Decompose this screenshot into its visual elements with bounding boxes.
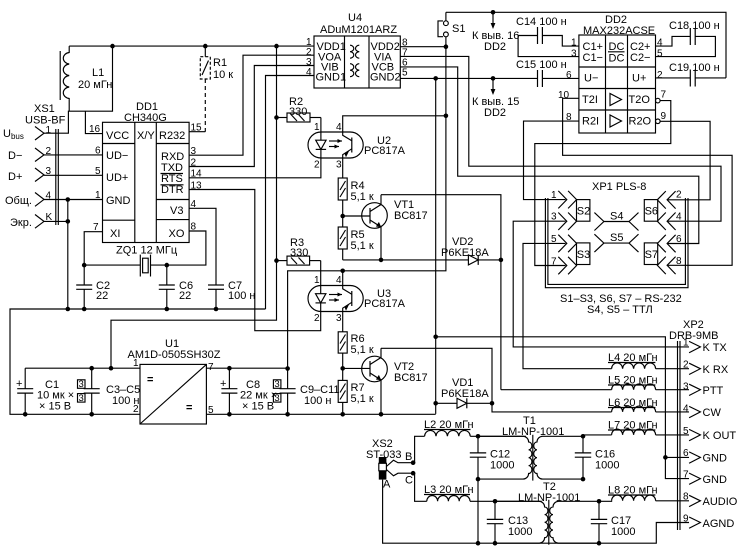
svg-text:U−: U− <box>584 73 598 85</box>
svg-text:T2I: T2I <box>582 94 598 106</box>
node C13 dots <box>493 499 498 546</box>
svg-text:5,1 к: 5,1 к <box>351 344 374 356</box>
XP1 pin2 chevrons <box>657 190 682 209</box>
svg-text:S1: S1 <box>452 23 465 35</box>
node GND2 branch dot <box>433 335 438 340</box>
wire VT2 collector to CW <box>381 348 492 403</box>
svg-text:1: 1 <box>133 358 139 369</box>
wire DD2 R2O to XP1 pin2 <box>660 121 710 200</box>
IC DD1 CH340G <box>89 101 202 243</box>
capacitor C19 100н <box>656 62 727 87</box>
wire DD2 T2O to XP1 pin7 <box>535 101 671 266</box>
svg-text:7: 7 <box>551 257 557 268</box>
resistor R4 5,1к <box>338 158 374 203</box>
svg-text:15: 15 <box>191 123 203 134</box>
svg-text:5,1 к: 5,1 к <box>351 240 374 252</box>
node junction dots left <box>66 197 71 311</box>
svg-text:3: 3 <box>336 313 342 324</box>
svg-text:K OUT: K OUT <box>703 430 737 442</box>
wire isolated +5V top rail <box>446 12 726 78</box>
svg-text:C14 100 н: C14 100 н <box>516 16 567 28</box>
svg-text:6: 6 <box>683 448 689 459</box>
svg-text:BC817: BC817 <box>394 372 428 384</box>
svg-text:Общ.: Общ. <box>5 195 32 207</box>
svg-text:U+: U+ <box>632 73 646 85</box>
node VD1 cathode dot <box>490 401 495 406</box>
svg-text:1: 1 <box>683 338 689 349</box>
svg-text:1000: 1000 <box>611 526 635 538</box>
node К выв. 15 DD2 arrow <box>472 78 519 119</box>
inductor L8 20мГн <box>608 485 689 501</box>
svg-text:R1: R1 <box>213 57 227 69</box>
svg-text:3: 3 <box>336 160 342 171</box>
jumper S2 box <box>577 200 591 222</box>
svg-text:V3: V3 <box>170 205 183 217</box>
wire XS2 A to audio ground rail <box>383 480 689 544</box>
svg-text:4: 4 <box>657 38 663 49</box>
wire DD1 XI to crystal <box>84 232 102 265</box>
svg-text:5,1 к: 5,1 к <box>351 393 374 405</box>
wire U4 GND1 riser <box>266 76 315 310</box>
XP2 pin5 K OUT <box>683 426 736 442</box>
jumper S3 box <box>577 243 591 265</box>
svg-text:6: 6 <box>566 70 572 81</box>
svg-text:=: = <box>186 402 192 414</box>
svg-text:XS1: XS1 <box>34 103 55 115</box>
svg-text:6: 6 <box>95 146 101 157</box>
resistor R6 5,1к <box>338 311 374 368</box>
transformer T2 LM-NP-1001 <box>495 481 599 545</box>
XP2 pin7 GND <box>683 470 727 487</box>
wire U2 pin4 to VDD2 riser <box>343 116 446 132</box>
wire DD1 RXD to U4 VOA <box>189 55 314 155</box>
wire DD2 T2I from XP1 pin8 <box>563 98 733 265</box>
wire U4 VDD2 pin8 to S1 <box>400 46 446 48</box>
svg-text:PC817A: PC817A <box>364 298 406 310</box>
node top rail dot <box>491 10 496 15</box>
node emitter dot <box>379 258 384 263</box>
svg-text:C19 100 н: C19 100 н <box>669 62 720 74</box>
capacitor C15 100н <box>516 59 579 87</box>
wire DD1 DTR to U3 pin2 <box>189 190 321 331</box>
svg-text:1000: 1000 <box>508 526 532 538</box>
inductor L6 20мГн <box>608 397 689 412</box>
svg-text:4: 4 <box>676 212 682 223</box>
node К выв. 16 DD2 arrow <box>472 12 519 53</box>
IC DD2 MAX232ACSE <box>558 14 667 133</box>
node C8 bottom dot <box>227 412 232 417</box>
node U3 collector dot <box>340 269 345 274</box>
svg-text:S2: S2 <box>577 206 590 218</box>
svg-text:1000: 1000 <box>595 460 619 472</box>
wire U4 VIA to XP1 pin4 <box>400 56 721 221</box>
wire VT1 collector to PTT riser <box>381 195 501 390</box>
svg-text:DD2: DD2 <box>484 107 506 119</box>
wire ground drop from Общ <box>67 200 69 310</box>
svg-text:K TX: K TX <box>703 342 728 354</box>
svg-text:S7: S7 <box>645 249 658 261</box>
capacitor C18 100н <box>656 20 720 57</box>
svg-text:10: 10 <box>558 90 570 101</box>
svg-text:330: 330 <box>290 247 308 259</box>
XP1 pin7 chevrons <box>551 257 577 275</box>
svg-text:BC817: BC817 <box>394 210 428 222</box>
svg-text:S4: S4 <box>610 211 623 223</box>
XP2 pin4 CW <box>683 404 721 420</box>
svg-text:GND: GND <box>703 474 728 486</box>
capacitor C3-C5 100н x3 <box>78 368 141 414</box>
svg-text:10 к: 10 к <box>213 69 233 81</box>
resistor R3 330 <box>277 237 321 265</box>
connector XP1 PLS-8 <box>545 181 688 288</box>
node XP2 GND dot <box>663 455 668 460</box>
svg-text:3: 3 <box>79 393 84 404</box>
jumper S4 <box>594 211 638 231</box>
XP2 pin3 PTT <box>683 382 724 398</box>
wire XS1 pinK Экр to ground <box>44 220 68 222</box>
svg-text:DC: DC <box>609 53 625 65</box>
XP1 pin6 chevrons <box>657 234 682 252</box>
svg-text:X/Y: X/Y <box>137 130 155 142</box>
connector XS1 USB-BF <box>3 103 66 229</box>
svg-text:× 15 В: × 15 В <box>39 401 71 413</box>
capacitor C14 100н <box>516 16 579 57</box>
wire VT1 emitter line to VD2 <box>343 259 469 261</box>
DC-DC U1 AM1D-0505SH30Z <box>128 338 221 424</box>
XP1 pin4 chevrons <box>657 212 682 231</box>
node VT1 base dot <box>340 214 345 219</box>
svg-text:1: 1 <box>551 190 557 201</box>
svg-text:R2O: R2O <box>629 116 652 128</box>
svg-text:P6KE18A: P6KE18A <box>441 247 489 259</box>
wire XS1 pin3 D+ to DD1 UD+ <box>44 174 103 176</box>
wire U4 GND2 line <box>400 77 536 79</box>
svg-text:ZQ1 12 МГц: ZQ1 12 МГц <box>116 245 178 257</box>
svg-text:S6: S6 <box>645 206 658 218</box>
transistor VT1 BC817 <box>343 195 428 260</box>
svg-text:DC: DC <box>609 41 625 53</box>
node U1 minus rail dots <box>23 412 94 417</box>
wire T2 right top to L8 <box>599 500 612 503</box>
svg-text:330: 330 <box>289 106 307 118</box>
inductor L5 20мГн <box>608 375 689 390</box>
wire USB ground rail <box>10 309 266 414</box>
svg-text:4: 4 <box>336 122 342 133</box>
node VDD2 to U1 output dot <box>285 366 290 371</box>
resistor R2 330 <box>277 96 321 122</box>
connector XP2 DRB-9MB <box>669 319 719 530</box>
svg-text:DRB-9MB: DRB-9MB <box>669 330 719 342</box>
svg-text:C: C <box>405 475 413 487</box>
wire PTT riser to L5 <box>501 389 612 391</box>
svg-text:2: 2 <box>657 70 663 81</box>
svg-text:16: 16 <box>89 124 101 135</box>
svg-text:CW: CW <box>703 407 722 419</box>
svg-text:PTT: PTT <box>703 385 724 397</box>
wire VCC feed to DD1 pin16 <box>85 111 102 133</box>
svg-text:4: 4 <box>683 404 689 415</box>
svg-text:XI: XI <box>110 228 120 240</box>
wire DD2 R2I from XP1 pin1 <box>524 121 579 200</box>
svg-text:VCC: VCC <box>106 130 129 142</box>
svg-text:Экр.: Экр. <box>10 217 32 229</box>
svg-text:7: 7 <box>683 470 689 481</box>
wire GND2 riser down to VD1 <box>435 78 437 414</box>
XP2 pin2 K RX <box>683 360 729 377</box>
svg-text:2: 2 <box>314 313 320 324</box>
transistor VT2 BC817 <box>343 348 428 414</box>
XP1 pin3 chevrons <box>551 212 577 231</box>
capacitor C7 100н <box>208 280 255 309</box>
svg-text:C1−: C1− <box>583 52 604 64</box>
svg-text:S5: S5 <box>610 232 623 244</box>
inductor L3 20мГн <box>424 484 542 501</box>
svg-text:1: 1 <box>314 122 320 133</box>
XP2 pin1 K TX <box>683 338 727 355</box>
capacitor C2 22 <box>76 265 110 309</box>
wire U3 pin4 to VDD2 line <box>342 271 344 286</box>
svg-text:GND2: GND2 <box>370 72 401 84</box>
svg-text:1: 1 <box>46 125 52 136</box>
diode VD1 P6KE18A <box>436 377 492 408</box>
XP1 pin5 chevrons <box>551 234 577 252</box>
node R3 tap dot <box>274 258 279 263</box>
svg-text:U4: U4 <box>348 12 362 24</box>
diode VD2 P6KE18A <box>441 236 501 265</box>
svg-text:1000: 1000 <box>490 460 514 472</box>
jumper S6 box <box>644 200 658 222</box>
resistor R7 5,1к <box>338 368 374 414</box>
svg-text:1: 1 <box>571 38 577 49</box>
node rail dots <box>110 44 279 49</box>
wire XP2 GND pin7 <box>665 457 689 478</box>
capacitor C17 1000 <box>591 501 636 543</box>
svg-text:5: 5 <box>95 166 101 177</box>
resistor R5 5,1к <box>338 200 374 260</box>
node R2 tap dot <box>274 115 279 120</box>
IC U4 ADuM1201ARZ <box>306 12 408 88</box>
svg-text:C2−: C2− <box>630 52 651 64</box>
wire XS2 B to L2 <box>413 436 425 462</box>
svg-text:20 мГн: 20 мГн <box>78 79 112 91</box>
svg-text:P6KE18A: P6KE18A <box>441 388 489 400</box>
node GND2 dots <box>433 44 495 80</box>
svg-text:GND1: GND1 <box>316 72 347 84</box>
wire DD1 pin15 stub <box>189 131 205 133</box>
svg-text:7: 7 <box>208 362 214 373</box>
wire XS1 pin1 Ubus to L1 <box>44 46 113 133</box>
svg-text:D−: D− <box>8 150 22 162</box>
wire +5V riser to R2 R3 and U1 <box>111 46 277 368</box>
wire U4 VCB to XP1 pin6 <box>400 67 699 244</box>
switch S1 <box>438 12 465 46</box>
svg-text:D+: D+ <box>8 171 22 183</box>
svg-text:9: 9 <box>661 111 667 122</box>
capacitor C1 10мк <box>16 368 74 414</box>
inductor L4 20мГн <box>608 352 689 369</box>
svg-text:2: 2 <box>314 160 320 171</box>
svg-text:4: 4 <box>306 67 312 78</box>
node iso ground dots <box>285 412 383 417</box>
svg-text:GND: GND <box>106 195 131 207</box>
svg-text:7: 7 <box>661 90 667 101</box>
svg-text:5: 5 <box>402 68 408 79</box>
wire isolated ground rail <box>206 413 435 415</box>
wire DD1 XO to crystal <box>151 231 206 265</box>
node VD1 anode dot <box>433 401 438 406</box>
svg-text:AUDIO: AUDIO <box>703 496 738 508</box>
svg-text:R2I: R2I <box>582 116 599 128</box>
wire DD1 TXD to U4 VIB <box>189 66 314 167</box>
svg-text:C15 100 н: C15 100 н <box>516 59 567 71</box>
jumper S7 box <box>644 243 658 265</box>
svg-text:UD+: UD+ <box>106 172 128 184</box>
jumper S5 <box>594 232 638 252</box>
svg-text:S4, S5 – ТТЛ: S4, S5 – ТТЛ <box>587 304 653 316</box>
svg-text:UD−: UD− <box>106 150 128 162</box>
node ground rail dots <box>82 263 218 312</box>
svg-text:5: 5 <box>657 49 663 60</box>
optocoupler U3 PC817A <box>308 261 406 324</box>
wire XS2 C to L3 <box>413 473 427 501</box>
svg-text:100 н: 100 н <box>304 395 331 407</box>
svg-text:XO: XO <box>169 228 185 240</box>
node C12 dots <box>476 434 481 481</box>
svg-text:5,1 к: 5,1 к <box>351 191 374 203</box>
svg-text:× 15 В: × 15 В <box>242 401 274 413</box>
svg-text:B: B <box>405 451 412 463</box>
svg-text:ADuM1201ARZ: ADuM1201ARZ <box>320 24 397 36</box>
svg-text:=: = <box>147 374 153 386</box>
node C8 top dot <box>227 366 232 371</box>
wire GND2 line to XP2 <box>436 337 689 458</box>
svg-text:S3: S3 <box>577 249 590 261</box>
wire DD1 V3 to C7 <box>189 208 216 285</box>
wire XP1 pin3 to K TX <box>513 221 689 347</box>
capacitor C6 22 <box>159 265 193 309</box>
node C17 dots <box>597 499 602 546</box>
wire C12 bottom to audio rail <box>477 479 479 543</box>
svg-text:22: 22 <box>179 290 191 302</box>
wire DD1 RTS to U2 pin2 <box>189 158 321 178</box>
wire XP1 pin5 to L4 K RX <box>523 243 612 368</box>
XP2 pin6 GND <box>683 448 727 465</box>
optocoupler U2 PC817A <box>308 118 406 171</box>
wire K OUT line <box>583 435 612 436</box>
XP2 pin9 AGND <box>683 514 734 531</box>
XP2 pin8 AUDIO <box>683 492 738 509</box>
transformer T1 LM-NP-1001 <box>478 415 583 481</box>
svg-text:GND: GND <box>703 453 728 465</box>
svg-text:A: A <box>383 479 391 491</box>
capacitor C13 1000 <box>487 501 533 543</box>
label XP1 jumpers caption <box>560 293 682 316</box>
wire XS1 pin4 Общ to DD1 GND <box>44 199 103 201</box>
svg-text:K RX: K RX <box>703 364 729 376</box>
svg-text:3: 3 <box>274 393 279 404</box>
svg-text:3: 3 <box>683 382 689 393</box>
svg-text:22: 22 <box>96 290 108 302</box>
node C16 dots <box>581 434 586 481</box>
svg-text:4: 4 <box>336 275 342 286</box>
svg-text:L1: L1 <box>92 67 104 79</box>
svg-text:PC817A: PC817A <box>364 145 406 157</box>
svg-text:3: 3 <box>274 379 279 390</box>
inductor L1 20 мГн <box>60 46 112 111</box>
svg-text:100 н: 100 н <box>228 290 255 302</box>
svg-text:1: 1 <box>314 275 320 286</box>
wire +5V top rail <box>69 45 314 47</box>
svg-text:2: 2 <box>676 190 682 201</box>
XP1 pin8 chevrons <box>657 256 682 274</box>
node U2 collector dot <box>444 114 449 119</box>
svg-text:DTR: DTR <box>161 184 184 196</box>
connector XS2 ST-033 <box>366 438 415 491</box>
crystal ZQ1 12 МГц <box>84 245 178 277</box>
svg-text:8: 8 <box>676 256 682 267</box>
svg-text:3: 3 <box>79 379 84 390</box>
capacitor C16 1000 <box>575 436 620 479</box>
wire XS1 pin2 D- to DD1 UD- <box>44 154 103 156</box>
svg-text:R232: R232 <box>159 130 185 142</box>
svg-text:XP1 PLS-8: XP1 PLS-8 <box>592 181 646 193</box>
node VD2 cathode dot <box>499 258 504 263</box>
wire CW rail to L6 <box>492 403 612 412</box>
svg-text:AM1D-0505SH30Z: AM1D-0505SH30Z <box>128 349 221 361</box>
svg-text:AGND: AGND <box>703 518 735 530</box>
svg-text:5: 5 <box>208 405 214 416</box>
svg-text:100 н: 100 н <box>112 395 139 407</box>
capacitor C12 1000 <box>470 436 515 479</box>
node U1 input dots <box>89 366 113 371</box>
svg-text:DD2: DD2 <box>484 41 506 53</box>
capacitor C9-C11 100н x3 <box>273 368 339 414</box>
wire VDD2 riser <box>288 47 446 369</box>
wire U1 pin1 input line <box>25 367 140 369</box>
svg-text:C18 100 н: C18 100 н <box>669 20 720 32</box>
resistor R1 10k dashed <box>200 46 233 132</box>
svg-text:3: 3 <box>571 49 577 60</box>
svg-text:1: 1 <box>95 190 101 201</box>
inductor L7 20мГн <box>608 420 689 435</box>
capacitor C8 22мк <box>220 368 277 414</box>
svg-text:6: 6 <box>676 234 682 245</box>
node VT2 base dot <box>340 366 345 371</box>
inductor L2 20мГн <box>424 419 526 436</box>
XP1 pin1 chevrons <box>551 190 577 208</box>
wire U1 pin7 output line <box>206 367 287 369</box>
svg-text:T2O: T2O <box>629 94 651 106</box>
